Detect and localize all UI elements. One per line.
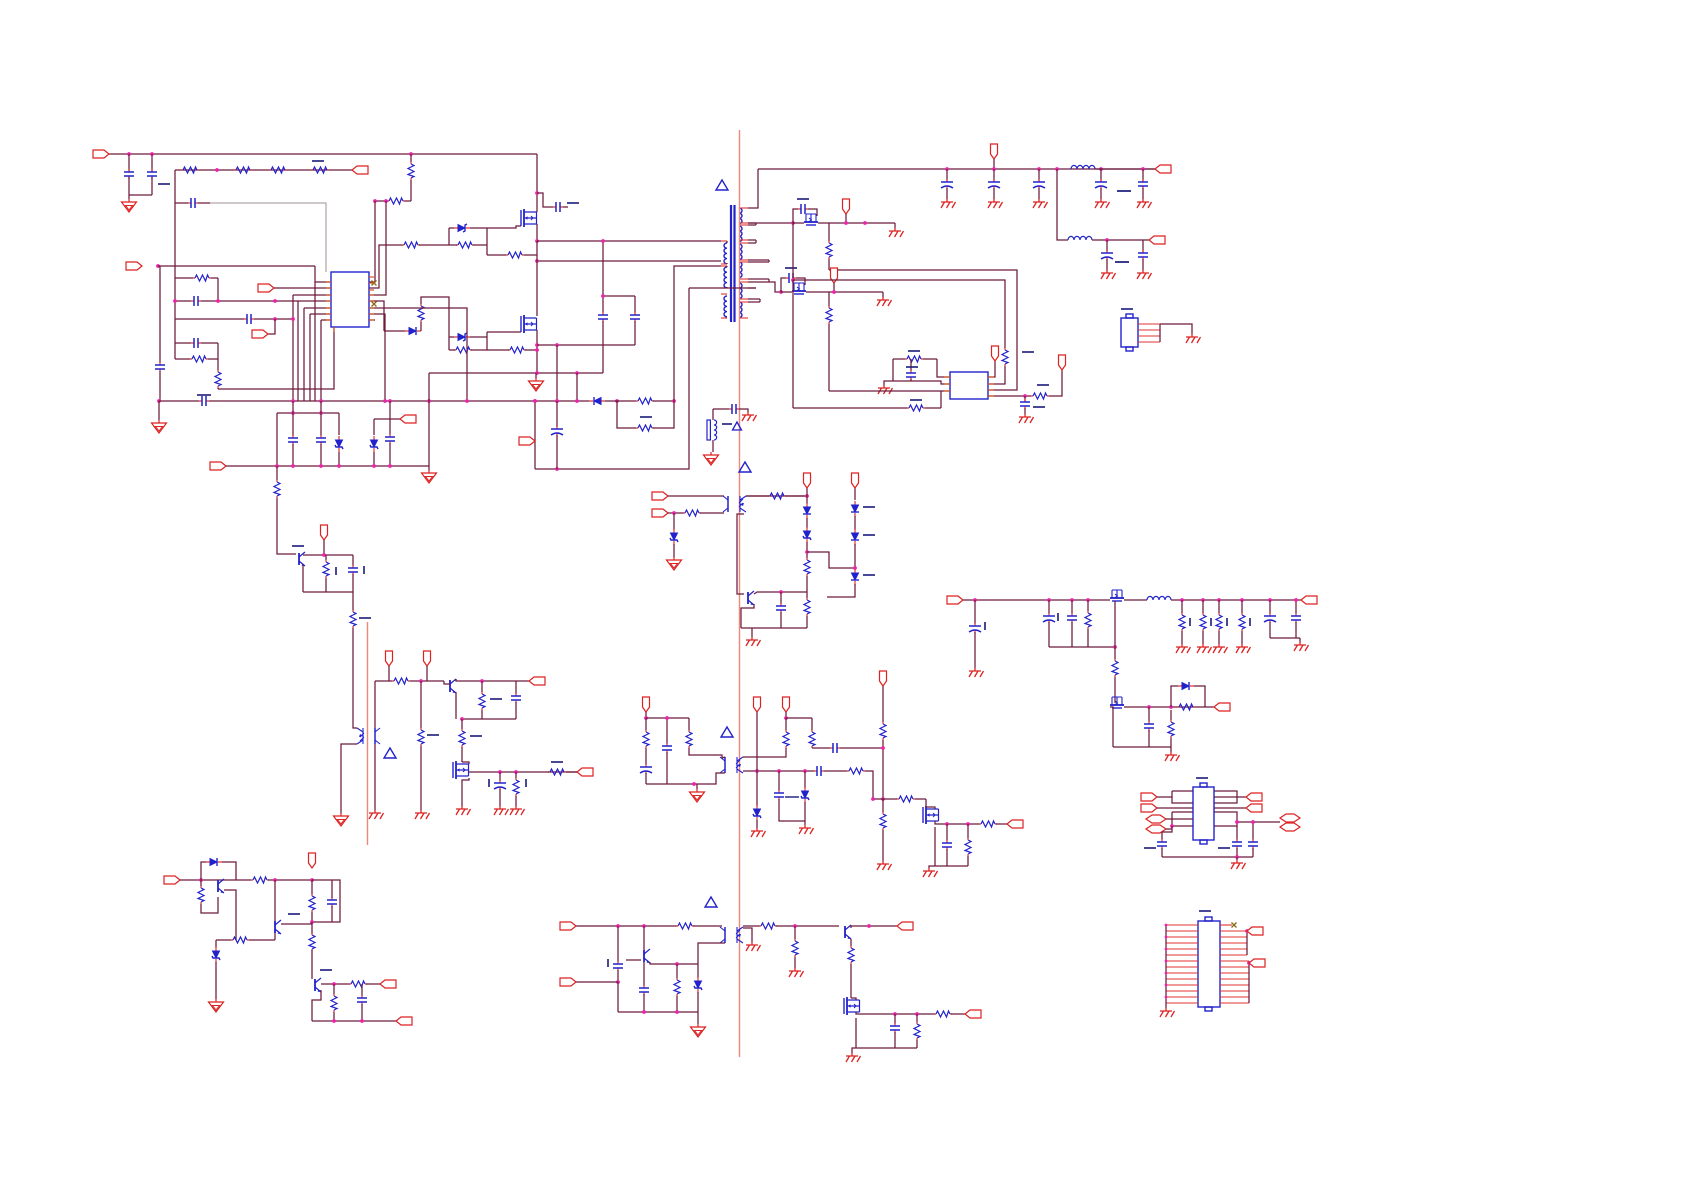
power flag — [831, 268, 838, 283]
ground — [941, 199, 956, 208]
junction — [601, 239, 605, 243]
navy link — [785, 796, 799, 798]
power flag — [386, 651, 393, 666]
zener D13 — [801, 787, 809, 803]
zener D17 — [694, 977, 702, 993]
wire — [743, 925, 760, 927]
wire — [1108, 599, 1110, 601]
wire bottom — [935, 865, 968, 867]
wire — [828, 223, 830, 241]
capacitor C12 — [316, 435, 326, 445]
wire — [824, 770, 847, 772]
wire — [352, 592, 354, 610]
capacitor C37 — [969, 623, 981, 633]
wire — [548, 771, 549, 773]
wire gate lead Q1 — [487, 226, 521, 228]
label dash — [1037, 384, 1049, 386]
wire opto cathode — [698, 943, 725, 964]
wire — [993, 188, 995, 199]
wire — [741, 627, 807, 629]
wire — [748, 222, 793, 224]
resistor R48 — [1112, 659, 1118, 677]
transformer primary winding 1 — [724, 243, 727, 264]
wire — [158, 265, 315, 267]
pnp transistor Q12 — [218, 879, 224, 893]
junction — [127, 152, 131, 156]
wire — [455, 679, 457, 681]
wire — [1295, 600, 1297, 614]
junction — [498, 770, 502, 774]
capacitor C39 — [1067, 613, 1077, 623]
junction — [1141, 167, 1145, 171]
resistor R17 — [636, 425, 654, 431]
junction — [384, 199, 388, 203]
pin — [988, 376, 994, 378]
wire — [806, 592, 808, 598]
junction — [672, 399, 676, 403]
wire — [461, 747, 463, 762]
wire — [303, 308, 305, 401]
resistor R32 — [418, 728, 424, 746]
wire — [420, 322, 422, 331]
ic U1 PWM controller — [331, 272, 369, 327]
junction — [779, 290, 783, 294]
wire — [1269, 622, 1271, 638]
wire primary B — [537, 260, 721, 262]
label dash — [906, 366, 918, 368]
capacitor C33 — [830, 743, 840, 753]
wire — [756, 820, 758, 828]
wire — [449, 349, 455, 351]
pin — [1220, 984, 1249, 986]
net flag — [965, 1010, 981, 1018]
wire — [1252, 822, 1254, 840]
wire bottom — [646, 783, 697, 785]
wire — [806, 518, 808, 528]
connector J2 — [1198, 921, 1220, 1007]
pin — [739, 207, 748, 209]
optocoupler U7 — [720, 927, 743, 943]
wire left pin bus — [1165, 925, 1167, 1003]
wire — [333, 984, 335, 994]
wire — [499, 789, 501, 806]
power flag — [1059, 355, 1066, 370]
wire — [534, 401, 536, 469]
wire — [455, 692, 457, 719]
capacitor C32 — [662, 743, 672, 753]
resistor R19 — [826, 306, 832, 324]
wire — [1038, 188, 1040, 199]
wire — [697, 773, 725, 784]
wire — [646, 717, 689, 719]
wire LED anode — [374, 681, 376, 728]
junction — [535, 348, 539, 352]
capacitor C44 — [1232, 839, 1242, 849]
ground — [456, 806, 471, 815]
diode D11 — [851, 569, 859, 585]
wire — [556, 345, 558, 401]
pin — [1220, 1002, 1249, 1004]
junction — [533, 399, 537, 403]
wire — [854, 516, 856, 530]
wire — [515, 681, 517, 694]
junction — [881, 797, 885, 801]
ground — [1160, 1008, 1175, 1017]
wire pin5R — [369, 308, 467, 401]
net flag — [1301, 596, 1317, 604]
junction — [360, 1019, 364, 1023]
ground — [704, 452, 719, 465]
junction — [1147, 705, 1151, 709]
power flag — [992, 346, 999, 361]
capacitor C3 — [188, 198, 198, 208]
junction — [672, 511, 676, 515]
resistor R1 — [181, 167, 199, 173]
wire — [643, 994, 645, 1012]
wire — [697, 992, 699, 1012]
junction — [535, 343, 539, 347]
wire — [201, 897, 218, 913]
pin — [326, 287, 331, 289]
resistor R33 — [479, 692, 485, 710]
resistor R4 — [311, 167, 329, 173]
wire — [925, 407, 941, 409]
wire — [217, 388, 219, 389]
ground — [510, 806, 525, 815]
junction — [1165, 996, 1168, 999]
resistor R44 — [880, 812, 886, 830]
junction — [853, 566, 857, 570]
net flag — [754, 697, 761, 712]
wire — [201, 300, 298, 302]
wire — [781, 291, 792, 293]
net flag — [210, 462, 226, 470]
wire bus A — [829, 270, 1017, 390]
capacitor C51 — [199, 396, 209, 406]
wire — [996, 823, 1007, 825]
pin — [1220, 960, 1249, 962]
wire cap row bottom — [1049, 646, 1115, 648]
wire — [566, 771, 577, 773]
pin — [988, 383, 994, 385]
wire — [769, 282, 781, 292]
wire — [249, 939, 275, 941]
junction — [1037, 167, 1041, 171]
wire — [515, 702, 517, 719]
net flag — [529, 677, 545, 685]
junction — [793, 924, 797, 928]
capacitor C35 — [774, 790, 784, 800]
power flag — [643, 697, 650, 712]
wire — [224, 890, 236, 940]
wire — [963, 599, 1108, 601]
wire gate box Q1 right — [486, 228, 488, 245]
wire — [389, 443, 391, 466]
wire — [353, 722, 357, 728]
wire — [1236, 848, 1238, 857]
junction — [777, 769, 781, 773]
wire — [882, 686, 884, 722]
junction — [601, 294, 605, 298]
wire bootstrap — [537, 193, 553, 207]
wire — [1161, 848, 1163, 857]
wire bottom — [312, 1020, 396, 1022]
resistor R11 — [508, 347, 526, 353]
junction — [805, 494, 809, 498]
npn transistor Q7 — [450, 679, 456, 693]
wire — [746, 495, 769, 497]
pin — [369, 294, 374, 296]
wire — [776, 925, 839, 927]
wire bus B2 — [793, 280, 1005, 348]
wire pin7L — [321, 319, 331, 321]
ground — [789, 968, 804, 977]
wire — [499, 772, 501, 781]
wire — [151, 177, 153, 195]
wire tap join — [759, 299, 761, 302]
ground — [1095, 199, 1110, 208]
diode D9 — [851, 501, 859, 517]
wire pin6R — [369, 314, 385, 401]
wire — [217, 359, 219, 370]
wire — [524, 254, 537, 256]
pin — [1166, 930, 1198, 932]
capacitor C34 — [814, 766, 824, 776]
resistor R51 — [198, 886, 204, 904]
junction — [616, 924, 620, 928]
wire — [384, 330, 405, 332]
net flag — [352, 166, 368, 174]
transformer secondary winding 1 — [739, 208, 742, 224]
net flag — [1149, 236, 1165, 244]
wire — [281, 923, 312, 925]
capacitor C38 — [1043, 613, 1055, 623]
pin — [721, 317, 727, 319]
label dash — [863, 534, 875, 536]
junction — [150, 152, 154, 156]
wire — [361, 1004, 363, 1021]
ground — [209, 999, 224, 1012]
wire — [893, 380, 937, 382]
net flag — [1141, 804, 1157, 812]
junction — [514, 770, 518, 774]
resistor R21 — [905, 356, 923, 362]
inductor L1 coil — [714, 420, 717, 440]
junction — [215, 168, 219, 172]
wire — [882, 292, 884, 297]
capacitor C24 — [1101, 250, 1113, 260]
wire — [894, 1032, 896, 1048]
junction — [945, 822, 949, 826]
wire bias return — [748, 287, 756, 289]
net flag — [380, 980, 396, 988]
wire — [756, 712, 758, 806]
resistor R36 — [548, 769, 566, 775]
pin — [1166, 984, 1198, 986]
wire — [1095, 168, 1155, 170]
cap top bar — [197, 394, 211, 396]
wire — [208, 358, 218, 360]
connector J1 — [1121, 318, 1138, 347]
wire — [456, 679, 516, 681]
junction — [273, 317, 277, 321]
junction — [871, 797, 875, 801]
junction — [1169, 705, 1173, 709]
pin — [1220, 990, 1249, 992]
wire — [828, 324, 830, 391]
wire — [419, 244, 449, 246]
resistor — [1239, 613, 1245, 631]
resistor R54 — [231, 937, 249, 943]
npn transistor Q15 — [644, 949, 650, 963]
wire tap join — [768, 279, 770, 282]
wire — [988, 395, 1031, 397]
ground — [691, 1024, 706, 1037]
wire — [1299, 638, 1301, 642]
wire — [1218, 600, 1220, 613]
pin — [988, 395, 994, 397]
wire — [320, 320, 322, 401]
ground — [494, 806, 509, 815]
wire — [937, 359, 950, 377]
wire — [274, 880, 276, 921]
wire — [268, 319, 275, 334]
resistor R23 — [1031, 393, 1049, 399]
junction — [832, 290, 836, 294]
wire Q1 drain — [536, 154, 538, 212]
wire — [473, 244, 487, 246]
junction — [480, 679, 484, 683]
capacitor C36 — [942, 840, 952, 850]
wire — [175, 318, 244, 320]
wire — [676, 964, 678, 978]
label dash — [335, 567, 337, 575]
ground — [969, 668, 984, 677]
junction — [319, 399, 323, 403]
wire pin — [315, 266, 331, 282]
wire bottom — [1113, 746, 1171, 748]
capacitor C17 — [906, 370, 916, 380]
resistor R61 — [848, 946, 854, 964]
diode D4 — [589, 397, 605, 405]
pin — [1138, 341, 1160, 343]
wire base — [626, 959, 641, 961]
resistor R25 — [768, 493, 786, 499]
pin — [944, 383, 950, 385]
wire staircase — [807, 552, 855, 568]
resistor — [1179, 613, 1185, 631]
label dash — [1144, 847, 1156, 849]
wire — [737, 514, 744, 594]
wire — [226, 465, 277, 467]
wire — [617, 982, 619, 1012]
capacitor C7 — [191, 296, 201, 306]
wire — [645, 718, 647, 730]
wire — [1170, 710, 1172, 720]
junction — [535, 191, 539, 195]
capacitor C27 — [776, 603, 786, 613]
capacitor C19 — [941, 179, 953, 189]
junction — [310, 920, 314, 924]
junction — [157, 399, 161, 403]
wire — [748, 298, 760, 300]
wire — [1157, 807, 1193, 809]
wire diode box — [1171, 686, 1178, 707]
diode D15 — [206, 858, 222, 866]
pin — [739, 301, 748, 303]
wire — [722, 757, 725, 758]
junction — [1165, 960, 1168, 963]
wire — [993, 169, 995, 181]
wire — [713, 408, 729, 410]
junction — [332, 982, 336, 986]
resistor R20 — [1002, 348, 1008, 366]
pin — [1166, 966, 1198, 968]
wire gray — [198, 202, 210, 204]
wire — [1142, 240, 1144, 252]
wire — [410, 154, 412, 162]
wire — [693, 925, 722, 927]
wire — [311, 880, 313, 894]
ground — [923, 868, 938, 877]
wire — [603, 295, 635, 297]
pin — [369, 300, 374, 302]
wire — [748, 222, 756, 224]
wire — [743, 928, 752, 942]
zener D18 — [670, 529, 678, 545]
wire — [634, 296, 636, 313]
wire — [668, 512, 684, 514]
junction — [275, 464, 279, 468]
wire — [894, 223, 896, 228]
wire — [449, 336, 454, 338]
pin — [369, 282, 374, 284]
power flag VIN — [93, 150, 109, 158]
wire — [743, 748, 786, 757]
wire — [1194, 686, 1205, 707]
capacitor C46 — [327, 897, 337, 907]
wire flag row — [374, 418, 400, 420]
label dash — [607, 959, 609, 967]
npn transistor Q13 — [275, 920, 281, 934]
ground — [1197, 644, 1212, 653]
wire — [650, 962, 698, 964]
label dash — [1199, 910, 1211, 912]
wire — [748, 224, 756, 226]
wire — [254, 318, 293, 320]
optocoupler U3 — [723, 496, 746, 512]
resistor R38 — [686, 730, 692, 748]
wire — [311, 912, 313, 922]
wire — [331, 906, 333, 922]
wire — [352, 555, 354, 566]
junction — [1165, 924, 1168, 927]
pin — [1138, 329, 1160, 331]
wire pin bus — [1159, 324, 1161, 342]
label dash — [785, 267, 797, 269]
ground — [878, 385, 893, 394]
wire — [1295, 622, 1297, 638]
wire — [1048, 600, 1050, 614]
label dash — [158, 183, 170, 185]
label dash — [1121, 308, 1133, 310]
wire — [1124, 599, 1147, 601]
resistor R56 — [331, 994, 337, 1012]
pin — [739, 298, 748, 300]
pin — [1220, 978, 1249, 980]
wire — [410, 680, 444, 682]
wire right bus lower — [1248, 961, 1250, 1003]
